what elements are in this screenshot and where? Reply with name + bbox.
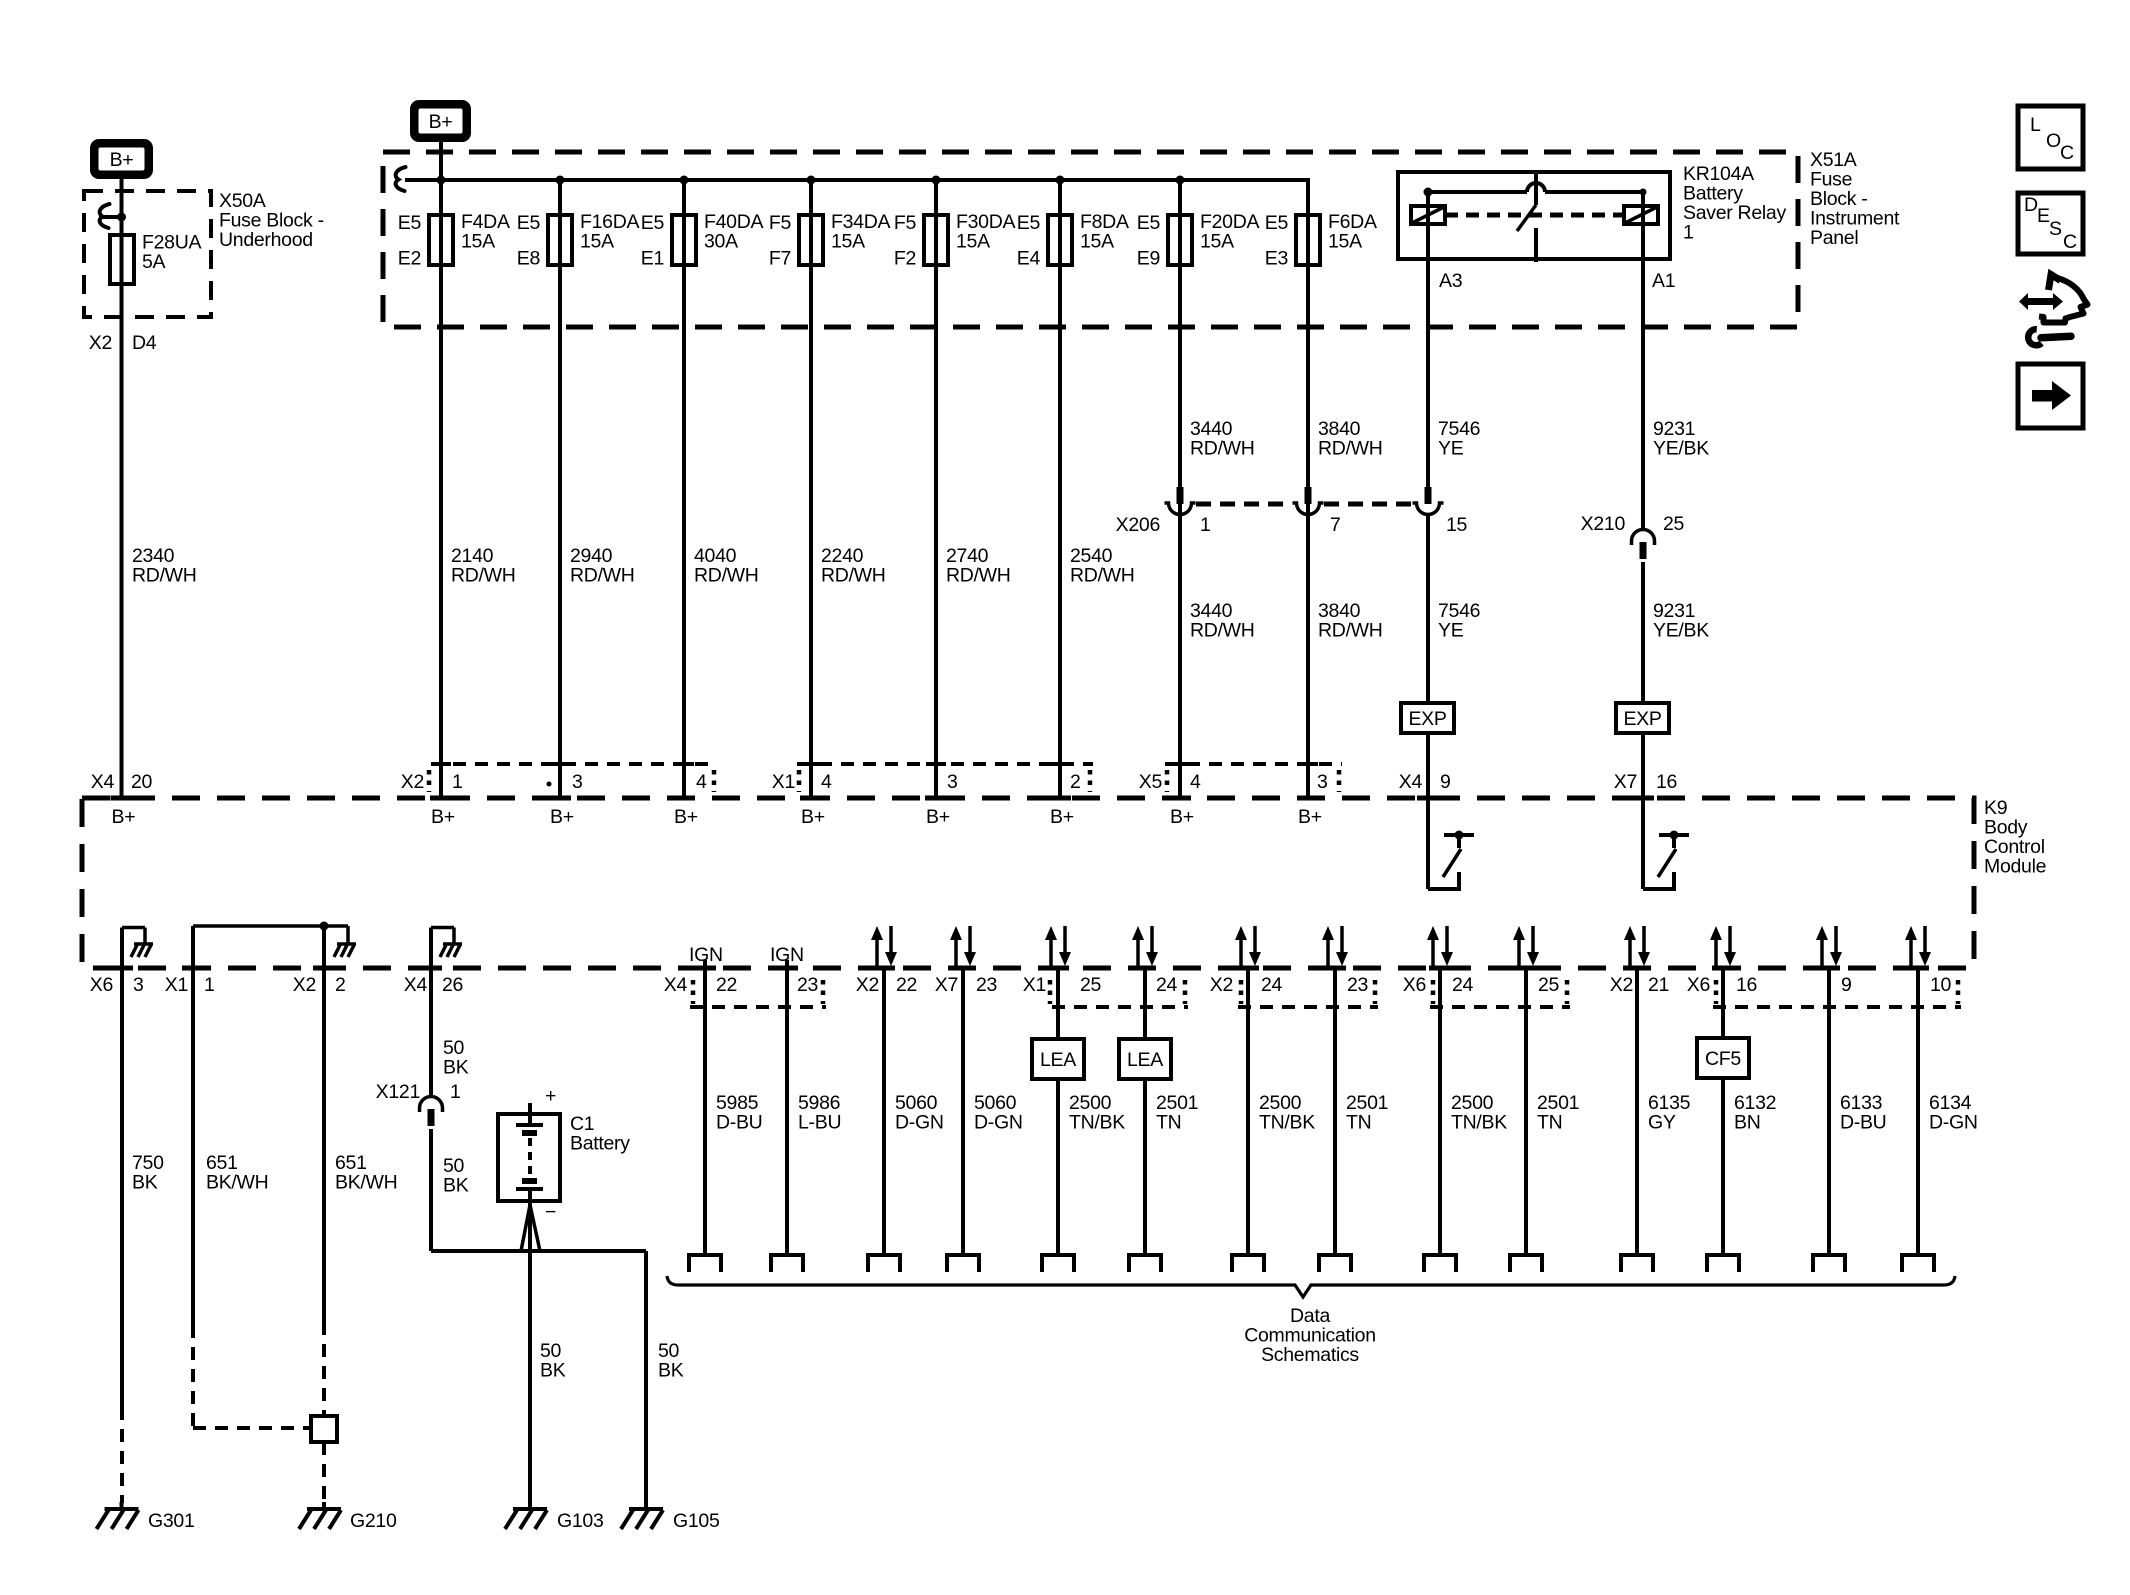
- svg-text:22: 22: [896, 974, 917, 996]
- icon LOC box: [2018, 106, 2083, 169]
- data wire 6133 D-BU: [1827, 968, 1831, 1255]
- wire from bus through fuse F8DA: [1058, 180, 1062, 798]
- BCM internal switch below X7-16: [1641, 798, 1645, 889]
- relay coil (right): [1624, 206, 1658, 224]
- connector X1 dotted box (pins 25 24): [1052, 1005, 1188, 1009]
- svg-text:X1: X1: [1023, 974, 1046, 996]
- wire 651 BK/WH from X2-2 to G210: [322, 968, 326, 1322]
- relay fixed contact stub: [1534, 228, 1538, 262]
- svg-text:E4: E4: [1017, 248, 1041, 270]
- svg-text:GY: GY: [1648, 1112, 1676, 1134]
- wire from bus through fuse F20DA: [1178, 180, 1182, 798]
- svg-text:20: 20: [131, 771, 153, 793]
- svg-text:BK/WH: BK/WH: [206, 1172, 268, 1194]
- svg-text:X2: X2: [856, 974, 879, 996]
- off-page terminator for 2501: [1319, 1255, 1351, 1272]
- svg-text:X7: X7: [935, 974, 958, 996]
- svg-text:B+: B+: [431, 806, 455, 828]
- svg-text:X2: X2: [1210, 974, 1233, 996]
- battery negative chevron: [521, 1205, 530, 1251]
- svg-text:E5: E5: [1137, 212, 1161, 234]
- relay KR104A Battery Saver Relay outline: [1398, 172, 1670, 259]
- svg-text:RD/WH: RD/WH: [132, 565, 197, 587]
- data wire 5060 D-GN: [961, 968, 965, 1255]
- svg-text:X4: X4: [664, 974, 688, 996]
- svg-text:RD/WH: RD/WH: [1318, 438, 1383, 460]
- pin ticks on BCM bottom edge: [111, 966, 133, 971]
- svg-text:X6: X6: [1687, 974, 1710, 996]
- BCM internal ground for X4-26: [429, 928, 433, 969]
- off-page terminator for 5060: [868, 1255, 900, 1272]
- svg-text:X1: X1: [772, 771, 795, 793]
- relay armature vertical: [1534, 172, 1538, 205]
- svg-text:L: L: [2030, 114, 2041, 136]
- off-page terminator for 2500: [1042, 1255, 1074, 1272]
- svg-text:4: 4: [1190, 771, 1201, 793]
- svg-text:1: 1: [452, 771, 463, 793]
- svg-text:24: 24: [1261, 974, 1283, 996]
- svg-text:YE/BK: YE/BK: [1653, 620, 1709, 642]
- svg-text:F5: F5: [769, 212, 792, 234]
- fuse F34DA 15A: [799, 215, 823, 265]
- svg-text:23: 23: [797, 974, 818, 996]
- ground distribution wire: [431, 1249, 646, 1253]
- svg-text:15A: 15A: [831, 231, 865, 253]
- svg-text:15A: 15A: [1328, 231, 1362, 253]
- fuse F20DA 15A: [1168, 215, 1192, 265]
- wire 7546 YE from relay A3: [1426, 192, 1430, 487]
- svg-text:E5: E5: [398, 212, 422, 234]
- svg-text:BK: BK: [443, 1175, 469, 1197]
- svg-text:B+: B+: [429, 111, 453, 133]
- svg-text:D4: D4: [132, 332, 157, 354]
- svg-text:+: +: [545, 1085, 556, 1107]
- battery C1: [498, 1114, 560, 1201]
- svg-text:9: 9: [1440, 771, 1451, 793]
- svg-text:X206: X206: [1116, 514, 1160, 536]
- svg-text:1: 1: [1200, 514, 1211, 536]
- connector X2 dotted box (pins 24 23): [1238, 1005, 1378, 1009]
- svg-text:B+: B+: [110, 149, 134, 171]
- off-page terminator for 2501: [1129, 1255, 1161, 1272]
- svg-text:Schematics: Schematics: [1261, 1344, 1359, 1366]
- svg-text:RD/WH: RD/WH: [570, 565, 635, 587]
- svg-text:YE/BK: YE/BK: [1653, 438, 1709, 460]
- svg-text:F5: F5: [894, 212, 917, 234]
- off-page terminator for 5986: [771, 1255, 803, 1272]
- svg-text:E5: E5: [517, 212, 541, 234]
- svg-text:RD/WH: RD/WH: [694, 565, 759, 587]
- svg-text:TN/BK: TN/BK: [1069, 1112, 1125, 1134]
- svg-text:X2: X2: [1610, 974, 1633, 996]
- BCM internal switch below X4-9: [1426, 798, 1430, 889]
- svg-text:O: O: [2046, 130, 2061, 152]
- svg-text:30A: 30A: [704, 231, 738, 253]
- bus junction at F8DA: [1056, 176, 1065, 185]
- connector X6 dotted box (pins 24 25): [1430, 1005, 1570, 1009]
- fuse F16DA 15A: [548, 215, 572, 265]
- svg-text:15A: 15A: [580, 231, 614, 253]
- wire from bus through fuse F30DA: [934, 180, 938, 798]
- icon double arrow with wrench: [2019, 293, 2063, 310]
- svg-text:1: 1: [450, 1081, 461, 1103]
- svg-text:TN/BK: TN/BK: [1259, 1112, 1315, 1134]
- svg-text:25: 25: [1080, 974, 1102, 996]
- svg-text:B+: B+: [1298, 806, 1322, 828]
- svg-text:B+: B+: [801, 806, 825, 828]
- svg-text:Underhood: Underhood: [219, 229, 313, 251]
- connector X206 pin 15 inline: [1425, 487, 1432, 504]
- svg-text:D-GN: D-GN: [1929, 1112, 1978, 1134]
- wire 3840 RD/WH lower: [1306, 516, 1310, 798]
- svg-text:Battery: Battery: [570, 1133, 630, 1155]
- connector X210 pin 25 inline: [1632, 530, 1655, 546]
- wire 750 BK to G301: [120, 968, 124, 1407]
- data wire 6135 GY: [1635, 968, 1639, 1255]
- svg-text:BN: BN: [1734, 1112, 1761, 1134]
- svg-text:TN: TN: [1156, 1112, 1181, 1134]
- IGN pin stubs: [703, 960, 707, 968]
- svg-text:EXP: EXP: [1408, 708, 1446, 730]
- relay armature hop arc: [1527, 183, 1545, 192]
- svg-text:1: 1: [1683, 222, 1694, 244]
- svg-text:EXP: EXP: [1623, 708, 1661, 730]
- data wire 2501 TN: [1333, 968, 1337, 1255]
- wire 2340 RD/WH from B+ to BCM X4-20: [120, 179, 124, 798]
- svg-text:B+: B+: [1170, 806, 1194, 828]
- data wire 5060 D-GN: [882, 968, 886, 1255]
- svg-text:E5: E5: [1017, 212, 1041, 234]
- svg-text:TN/BK: TN/BK: [1451, 1112, 1507, 1134]
- svg-text:RD/WH: RD/WH: [1070, 565, 1135, 587]
- fuse F4DA 15A: [429, 215, 453, 265]
- bus break squiggle: [396, 167, 406, 191]
- svg-text:B+: B+: [926, 806, 950, 828]
- fuse F6DA 15A: [1296, 215, 1320, 265]
- connector X206 pin 7 inline: [1305, 487, 1312, 504]
- svg-text:D-GN: D-GN: [895, 1112, 944, 1134]
- svg-text:E2: E2: [398, 248, 421, 270]
- bidirectional signal arrows: [875, 938, 879, 966]
- CF5 box on 6132 BN: [1697, 1038, 1749, 1078]
- ground G210: [322, 1502, 326, 1509]
- wire 3440 RD/WH lower: [1178, 516, 1182, 798]
- svg-text:LEA: LEA: [1127, 1049, 1163, 1071]
- svg-text:X7: X7: [1614, 771, 1637, 793]
- svg-text:10: 10: [1930, 974, 1952, 996]
- svg-text:X1: X1: [165, 974, 188, 996]
- svg-text:E1: E1: [641, 248, 664, 270]
- svg-text:B+: B+: [674, 806, 698, 828]
- svg-text:7: 7: [1330, 514, 1341, 536]
- svg-text:X4: X4: [91, 771, 115, 793]
- svg-text:E9: E9: [1137, 248, 1160, 270]
- wire 9231 YE/BK lower: [1641, 562, 1645, 703]
- svg-text:BK: BK: [132, 1172, 158, 1194]
- svg-text:D-BU: D-BU: [716, 1112, 762, 1134]
- svg-text:X6: X6: [90, 974, 113, 996]
- svg-text:YE: YE: [1438, 438, 1464, 460]
- wire 50 BK to G103: [528, 1201, 532, 1509]
- svg-text:3: 3: [947, 771, 958, 793]
- svg-text:X2: X2: [401, 771, 424, 793]
- svg-text:22: 22: [716, 974, 737, 996]
- fuse block X51A dashed outline - Instrument Panel: [383, 152, 1798, 327]
- node junction in X50A: [117, 213, 126, 222]
- icon next-page arrow box: [2018, 364, 2083, 428]
- wire from bus through fuse F40DA: [682, 180, 686, 798]
- svg-text:BK: BK: [658, 1360, 684, 1382]
- connector X5 dotted box (pins 4 3): [1165, 762, 1342, 766]
- svg-text:2: 2: [1070, 771, 1081, 793]
- connector X6 dotted box (pins 16 9 10): [1713, 1005, 1961, 1009]
- svg-text:G105: G105: [673, 1510, 720, 1532]
- svg-text:E3: E3: [1265, 248, 1288, 270]
- svg-text:15: 15: [1446, 514, 1468, 536]
- fuse F40DA 30A: [672, 215, 696, 265]
- svg-text:−: −: [545, 1201, 556, 1223]
- svg-text:X2: X2: [293, 974, 316, 996]
- svg-text:15A: 15A: [461, 231, 495, 253]
- wire 50 BK to G105: [644, 1251, 648, 1509]
- svg-text:15A: 15A: [1080, 231, 1114, 253]
- off-page terminator for 5060: [947, 1255, 979, 1272]
- svg-text:21: 21: [1648, 974, 1669, 996]
- svg-text:24: 24: [1156, 974, 1178, 996]
- svg-text:B+: B+: [1050, 806, 1074, 828]
- wire from bus through fuse F6DA: [1306, 180, 1310, 798]
- wire from B+ through F4DA: [439, 142, 443, 798]
- brace Data Communication Schematics: [667, 1276, 1955, 1297]
- wire 9231 YE/BK from relay A1: [1641, 192, 1645, 530]
- svg-text:G301: G301: [148, 1510, 195, 1532]
- relay internal top wire: [1428, 190, 1527, 194]
- svg-text:X4: X4: [404, 974, 428, 996]
- off-page terminator for 6134: [1902, 1255, 1934, 1272]
- B+ bus wire inside X51A: [405, 178, 1310, 182]
- svg-text:TN: TN: [1537, 1112, 1562, 1134]
- svg-text:3: 3: [1317, 771, 1328, 793]
- ground G301: [120, 1502, 124, 1509]
- svg-text:23: 23: [976, 974, 997, 996]
- svg-text:C: C: [2063, 231, 2077, 253]
- svg-text:Module: Module: [1984, 856, 2046, 878]
- svg-text:X121: X121: [376, 1081, 420, 1103]
- wire 50 BK from X4-26: [429, 968, 433, 1098]
- svg-text:D-GN: D-GN: [974, 1112, 1023, 1134]
- svg-text:BK: BK: [540, 1360, 566, 1382]
- bus junction at F40DA: [680, 176, 689, 185]
- fuse F30DA 15A: [924, 215, 948, 265]
- wire 651 BK/WH from X1-1: [191, 968, 195, 1325]
- svg-text:BK/WH: BK/WH: [335, 1172, 397, 1194]
- svg-text:E5: E5: [1265, 212, 1289, 234]
- off-page terminator for 2500: [1232, 1255, 1264, 1272]
- junction at relay coil A3: [1424, 188, 1433, 197]
- data wire 2500 TN/BK: [1438, 968, 1442, 1255]
- svg-text:RD/WH: RD/WH: [1190, 620, 1255, 642]
- X206 dashed gang line: [1196, 502, 1292, 507]
- svg-text:25: 25: [1538, 974, 1560, 996]
- svg-text:16: 16: [1656, 771, 1677, 793]
- bus junction at F4DA: [437, 176, 446, 185]
- svg-text:9: 9: [1841, 974, 1852, 996]
- svg-text:3: 3: [133, 974, 144, 996]
- K9 Body Control Module dashed outline: [82, 798, 1974, 968]
- svg-text:23: 23: [1347, 974, 1368, 996]
- svg-text:4: 4: [821, 771, 832, 793]
- svg-text:16: 16: [1736, 974, 1757, 996]
- svg-text:X2: X2: [89, 332, 112, 354]
- connector X206 pin 1 inline: [1177, 487, 1184, 504]
- connector X2 dotted box (pins 1 3 4): [431, 762, 717, 766]
- svg-text:26: 26: [442, 974, 463, 996]
- svg-text:E8: E8: [517, 248, 540, 270]
- svg-text:4: 4: [696, 771, 707, 793]
- ground G103: [528, 1502, 532, 1509]
- bus junction at F30DA: [932, 176, 941, 185]
- svg-text:F7: F7: [769, 248, 791, 270]
- bus junction at F34DA: [807, 176, 816, 185]
- EXP box on 9231: [1616, 703, 1669, 733]
- bus junction at F16DA: [556, 176, 565, 185]
- splice pack box: [311, 1416, 337, 1442]
- svg-text:2: 2: [335, 974, 346, 996]
- fuse block X50A dashed outline: [84, 191, 211, 317]
- wire 50 BK below X121: [429, 1129, 433, 1251]
- svg-text:RD/WH: RD/WH: [946, 565, 1011, 587]
- data wire 2500 TN/BK: [1056, 968, 1060, 1255]
- B+ battery feed symbol (top middle): [410, 100, 471, 142]
- connector X121 pin 1 inline: [420, 1097, 443, 1113]
- fuse F28UA 5A: [110, 235, 134, 284]
- off-page terminator for 6135: [1621, 1255, 1653, 1272]
- svg-text:1: 1: [204, 974, 215, 996]
- svg-text:RD/WH: RD/WH: [1190, 438, 1255, 460]
- svg-text:15A: 15A: [1200, 231, 1234, 253]
- data wire 2501 TN: [1524, 968, 1528, 1255]
- EXP box on 7546: [1401, 703, 1454, 733]
- wire from bus through fuse F16DA: [558, 180, 562, 798]
- svg-text:X5: X5: [1139, 771, 1163, 793]
- relay coil (left): [1411, 206, 1445, 224]
- icon DESC box: [2018, 193, 2083, 254]
- svg-text:X6: X6: [1403, 974, 1426, 996]
- connector X4 dotted box (pins 22 23): [690, 1005, 826, 1009]
- svg-text:LEA: LEA: [1040, 1049, 1076, 1071]
- svg-text:25: 25: [1663, 513, 1685, 535]
- svg-text:B+: B+: [112, 806, 136, 828]
- B+ battery feed symbol (left): [90, 139, 153, 179]
- off-page terminator for 6132: [1707, 1255, 1739, 1272]
- svg-text:G103: G103: [557, 1510, 604, 1532]
- svg-text:CF5: CF5: [1705, 1048, 1741, 1070]
- svg-text:L-BU: L-BU: [798, 1112, 841, 1134]
- BCM internal ground link X1-1 to X2-2: [191, 926, 195, 968]
- wire 7546 YE lower: [1426, 516, 1430, 703]
- data wire 6132 BN: [1721, 968, 1725, 1255]
- off-page terminator for 2501: [1510, 1255, 1542, 1272]
- svg-text:A3: A3: [1439, 270, 1462, 292]
- svg-text:Panel: Panel: [1810, 227, 1858, 249]
- junction at relay coil A1: [1640, 189, 1647, 196]
- pin ticks on dotted boxes top row: [431, 762, 451, 766]
- svg-text:24: 24: [1452, 974, 1474, 996]
- data wire 2500 TN/BK: [1246, 968, 1250, 1255]
- svg-text:RD/WH: RD/WH: [1318, 620, 1383, 642]
- svg-text:TN: TN: [1346, 1112, 1371, 1134]
- svg-text:A1: A1: [1652, 270, 1675, 292]
- svg-text:5A: 5A: [142, 251, 166, 273]
- data wire 6134 D-GN: [1916, 968, 1920, 1255]
- fuse F8DA 15A: [1048, 215, 1072, 265]
- svg-text:F2: F2: [894, 248, 916, 270]
- ground G105: [644, 1502, 648, 1509]
- off-page terminator for 5985: [689, 1255, 721, 1272]
- connector X1 dotted box (pins 4 3 2): [797, 762, 1093, 766]
- svg-text:Saver Relay: Saver Relay: [1683, 202, 1786, 224]
- svg-text:X210: X210: [1581, 513, 1626, 535]
- svg-text:X4: X4: [1399, 771, 1423, 793]
- wire from bus through fuse F34DA: [809, 180, 813, 798]
- svg-text:3: 3: [572, 771, 583, 793]
- data wire 5985 D-BU: [703, 968, 707, 1255]
- svg-text:BK: BK: [443, 1057, 469, 1079]
- LEA box on 2501 TN: [1119, 1039, 1171, 1079]
- data wire 2501 TN: [1143, 968, 1147, 1255]
- svg-text:G210: G210: [350, 1510, 397, 1532]
- pin ticks on BCM top edge: [111, 796, 133, 801]
- off-page terminator for 2500: [1424, 1255, 1456, 1272]
- LEA box on 2500 TN/BK: [1032, 1039, 1084, 1079]
- svg-text:YE: YE: [1438, 620, 1464, 642]
- svg-text:S: S: [2049, 218, 2062, 240]
- off-page terminator for 6133: [1813, 1255, 1845, 1272]
- svg-text:RD/WH: RD/WH: [821, 565, 886, 587]
- svg-text:E5: E5: [641, 212, 665, 234]
- feed stub and break squiggle in X50A: [99, 215, 122, 219]
- svg-text:C: C: [2060, 142, 2074, 164]
- bus junction at F20DA: [1176, 176, 1185, 185]
- data wire 5986 L-BU: [785, 968, 789, 1255]
- BCM internal ground for X6-3: [120, 928, 124, 969]
- relay switch arm: [1517, 205, 1536, 231]
- svg-text:D: D: [2024, 194, 2038, 216]
- svg-text:RD/WH: RD/WH: [451, 565, 516, 587]
- relay coil dashed link: [1445, 213, 1624, 218]
- svg-text:D-BU: D-BU: [1840, 1112, 1886, 1134]
- svg-text:15A: 15A: [956, 231, 990, 253]
- svg-text:B+: B+: [550, 806, 574, 828]
